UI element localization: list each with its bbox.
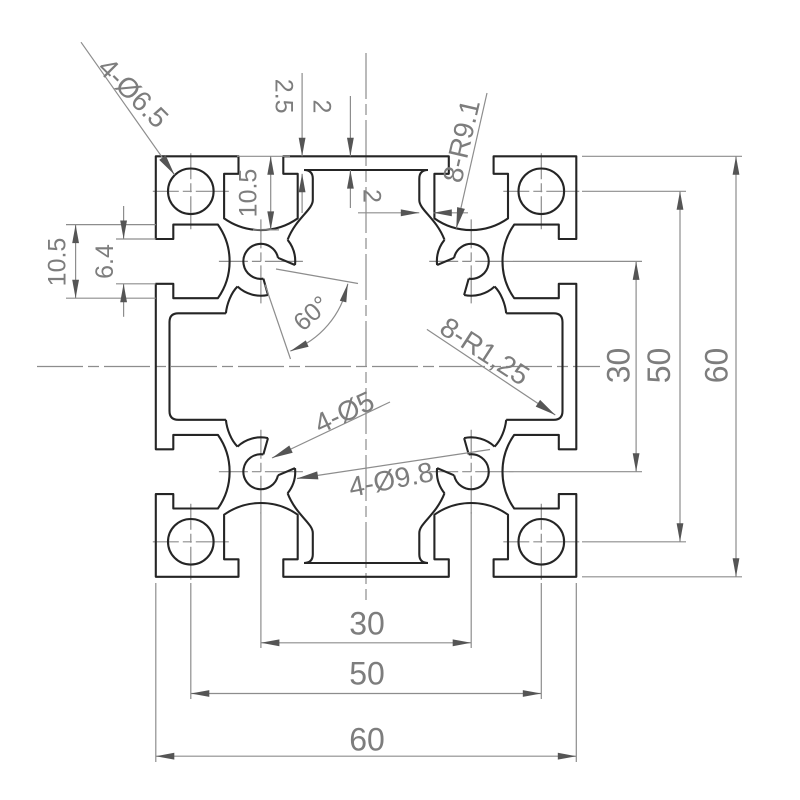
svg-text:60: 60 (698, 348, 734, 384)
node label-4-D6.5 (81, 42, 175, 175)
node dim-10.5-top (253, 229, 279, 231)
node corner-hole-D6.5-2 (519, 169, 565, 215)
svg-text:60: 60 (349, 721, 385, 757)
svg-text:10.5: 10.5 (43, 238, 71, 287)
svg-text:2.5: 2.5 (269, 79, 297, 114)
svg-text:30: 30 (600, 348, 636, 384)
node corner-hole-D6.5-4 (519, 519, 565, 565)
svg-text:2: 2 (357, 189, 385, 203)
wire central-chamber-outline (170, 170, 563, 563)
node dim-50-right (582, 190, 686, 192)
node boss-hole-centerlines-2 (429, 260, 513, 262)
node dim-2.5-top (301, 73, 303, 156)
node dim-30-bottom (260, 512, 262, 648)
node label-8-R9.1 (456, 93, 487, 229)
node dim-60-bottom (155, 583, 157, 762)
node screw-hole-D5-1 (243, 244, 278, 279)
node boss-hole-centerlines-3 (219, 471, 303, 473)
node corner-hole-D6.5-3 (168, 519, 214, 565)
svg-text:10.5: 10.5 (234, 169, 262, 218)
node corner-hole-centerlines-1 (153, 190, 229, 192)
node main-vertical-centerline (365, 53, 367, 600)
node corner-hole-D6.5-1 (168, 169, 214, 215)
wire outer-profile-outline (156, 156, 577, 577)
node corner-hole-centerlines-2 (503, 190, 579, 192)
node dim-60-right (582, 155, 742, 157)
node boss-hole-centerlines-1 (219, 260, 303, 262)
node screw-hole-D5-2 (454, 244, 489, 279)
node dim-10.5-left (66, 224, 156, 226)
svg-text:50: 50 (349, 655, 385, 691)
node label-8-R1.25 (427, 329, 555, 415)
svg-text:2: 2 (308, 100, 336, 114)
node label-4-D9.8 (297, 450, 490, 479)
node boss-hole-centerlines-4 (429, 471, 513, 473)
node main-horizontal-centerline (37, 366, 600, 368)
node dim-2-tongue-horizontal (358, 212, 419, 214)
node corner-hole-centerlines-3 (153, 541, 229, 543)
node label-4-D5 (272, 402, 390, 458)
node screw-hole-D5-4 (454, 454, 489, 489)
node dim-60deg-angle (276, 269, 358, 284)
node dim-6.4-left (116, 238, 156, 240)
node corner-hole-centerlines-4 (503, 541, 579, 543)
node screw-hole-D5-3 (243, 454, 278, 489)
node dim-50-bottom (190, 583, 192, 699)
node dim-2-top-vertical (349, 96, 351, 156)
svg-text:6.4: 6.4 (91, 244, 119, 279)
node dim-30-right (513, 260, 642, 262)
svg-text:30: 30 (349, 605, 385, 641)
svg-text:50: 50 (641, 348, 677, 384)
